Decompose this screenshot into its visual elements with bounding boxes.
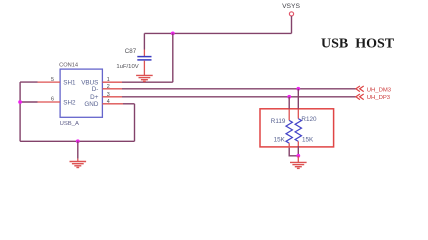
svg-text:SH2: SH2: [63, 99, 76, 106]
resistor R120: [295, 89, 301, 156]
svg-text:GND: GND: [84, 101, 98, 108]
wire bottom shield bus: [20, 140, 134, 142]
svg-text:1uF/10V: 1uF/10V: [116, 64, 138, 70]
wire GND pin horizontal: [123, 103, 135, 105]
pin stub 3 (D+): [102, 96, 122, 98]
junction D+ / R119: [287, 95, 291, 99]
svg-text:USB HOST: USB HOST: [321, 36, 395, 51]
junction resistor commons: [296, 154, 300, 158]
junction shield bus / ground: [76, 139, 80, 143]
port chevron UH_DP3: [356, 94, 364, 100]
svg-text:D+: D+: [90, 94, 99, 101]
highlight box (red): [260, 109, 334, 147]
wire VSYS vertical drop: [291, 16, 293, 33]
svg-text:15K: 15K: [274, 137, 286, 144]
ground (under connector): [70, 162, 87, 168]
wire SH1 to left bus: [20, 81, 37, 83]
wire left bus vertical: [19, 82, 21, 141]
pin stub 5 (SH1): [38, 81, 61, 83]
connector CON16 box: [60, 69, 102, 117]
wire D+ net: [122, 96, 356, 98]
svg-text:D-: D-: [92, 86, 99, 93]
wire SH2 to left bus: [20, 101, 37, 103]
junction D- / R120: [296, 87, 300, 91]
ground (under resistors): [290, 162, 307, 168]
pin stub 2 (D-): [102, 88, 122, 90]
svg-text:UH_DP3: UH_DP3: [367, 95, 391, 101]
pin stub 1 (VBUS): [102, 81, 122, 83]
pin stub 4 (GND): [102, 103, 123, 105]
svg-text:R119: R119: [271, 118, 286, 125]
wire VSYS horizontal rail: [144, 32, 291, 34]
svg-text:R120: R120: [301, 116, 317, 123]
ground (under C87): [136, 75, 153, 81]
wire VBUS vertical: [172, 33, 174, 82]
wire ground stub: [77, 141, 79, 158]
port chevron UH_DM3: [356, 86, 364, 92]
wire D- net: [122, 88, 356, 90]
junction VBUS/VSYS: [171, 32, 175, 36]
wire resistor ground stub: [297, 156, 299, 163]
svg-text:15K: 15K: [302, 137, 314, 144]
svg-text:C87: C87: [125, 48, 137, 55]
wire VBUS horizontal: [122, 81, 173, 83]
svg-text:USB_A: USB_A: [60, 121, 79, 127]
pin stub 6 (SH2): [38, 101, 61, 103]
svg-text:CON14: CON14: [59, 63, 78, 69]
node VSYS: [282, 3, 300, 16]
capacitor C87: [137, 33, 151, 75]
svg-text:SH1: SH1: [63, 80, 76, 87]
svg-text:VSYS: VSYS: [282, 3, 300, 10]
junction SH2/left bus: [18, 100, 22, 104]
wire GND pin vertical: [134, 104, 136, 142]
resistor R119: [286, 97, 298, 156]
svg-text:UH_DM3: UH_DM3: [367, 87, 392, 93]
